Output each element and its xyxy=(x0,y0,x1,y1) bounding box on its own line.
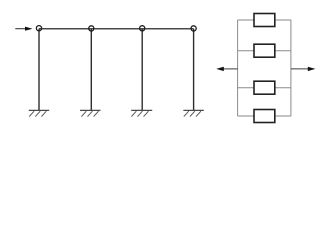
right reaction arrow xyxy=(291,67,316,71)
column 1 xyxy=(38,29,40,111)
hinge circle 2 xyxy=(89,26,94,31)
spring box 1 xyxy=(254,14,275,27)
column 2 xyxy=(90,29,92,111)
left rail of spring model xyxy=(237,20,239,116)
column 3 xyxy=(141,29,143,111)
left reaction arrow xyxy=(216,67,237,71)
column 4 xyxy=(193,29,195,111)
right rail of spring model xyxy=(290,20,292,116)
hinge circle 1 xyxy=(36,26,41,31)
hinge circle 4 xyxy=(191,26,196,31)
rung wire 2 xyxy=(238,50,291,52)
ground support 2 xyxy=(80,110,100,116)
spring box 3 xyxy=(254,81,275,94)
ground support 1 xyxy=(29,110,49,116)
spring box 4 xyxy=(254,110,275,123)
beam (top girder) xyxy=(39,28,194,30)
load arrow P xyxy=(15,27,32,31)
rung wire 3 xyxy=(238,87,291,89)
hinge circle 3 xyxy=(140,26,145,31)
ground support 3 xyxy=(131,110,152,116)
spring box 2 xyxy=(254,44,275,57)
rung wire 1 xyxy=(238,19,291,21)
rung wire 4 xyxy=(238,115,291,117)
ground support 4 xyxy=(183,110,203,116)
